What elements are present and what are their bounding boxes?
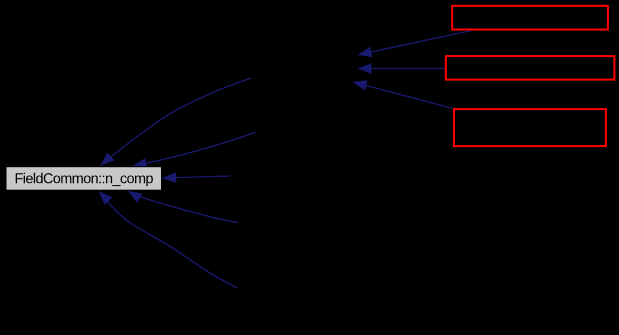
wire: horizontal edge from hidden node C to FieldCommon::n_comp right side xyxy=(163,176,231,178)
node FieldCommon::n_comp (current node, grey fill) xyxy=(6,167,162,191)
wire: edge from hidden node D to FieldCommon::n_comp bottom xyxy=(128,191,238,223)
wire: curved edge from hidden middle node to FieldCommon::n_comp (top-left arrowhead) xyxy=(101,78,251,166)
node caller box 2 (red, truncated) xyxy=(446,56,615,80)
wire: curved edge from hidden node E to FieldCommon::n_comp bottom-left xyxy=(99,191,237,288)
wire: edge from caller box 2 to hidden middle node xyxy=(358,68,445,70)
wire: edge from hidden node B to FieldCommon::n_comp (second top arrowhead) xyxy=(133,132,256,166)
wire: edge from caller box 3 to hidden middle node xyxy=(353,82,453,109)
wire: edge from caller box 1 to hidden middle node xyxy=(358,31,472,55)
node caller box 3 (red, truncated, two lines) xyxy=(454,109,606,146)
node caller box 1 (red, truncated) xyxy=(452,6,608,30)
